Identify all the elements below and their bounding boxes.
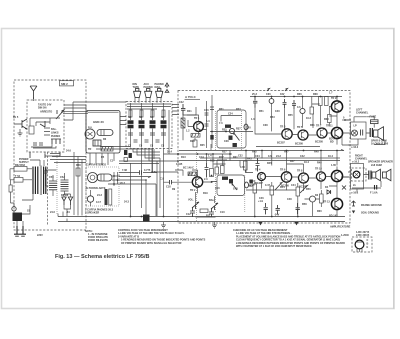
svg-text:R23: R23: [190, 140, 195, 143]
wire TR2: [164, 170, 213, 193]
svg-text:0.65: 0.65: [240, 166, 245, 169]
signal ground legend symbol: [352, 211, 355, 214]
svg-text:BC208: BC208: [315, 141, 323, 144]
svg-text:TR: TR: [88, 148, 92, 151]
tuner/power-supply module dashed enclosure SM2: [14, 80, 86, 230]
TO92 package: [355, 240, 364, 252]
tone feedback loop right channel: [217, 175, 245, 196]
svg-text:0.17: 0.17: [96, 201, 101, 204]
electrolytic capacitor C1: [97, 130, 113, 136]
svg-text:C.8: C.8: [160, 178, 165, 181]
svg-text:C32: C32: [238, 155, 243, 158]
tone feedback loop: [217, 110, 246, 148]
chassis ground mark: [165, 83, 169, 88]
label TASTO 24V: [38, 104, 52, 114]
ground under FE5: [18, 129, 23, 136]
switch key 2: [139, 103, 145, 148]
wire resistors to transformer: [10, 169, 32, 180]
level potentiometer: [56, 110, 64, 119]
resistor R43: [210, 169, 214, 177]
transformer T1 secondary: [44, 167, 46, 195]
supply rail labels: [66, 150, 81, 168]
wire antenna drop: [33, 97, 35, 101]
connector labels BAL LINKS PHONO: [51, 128, 60, 138]
capacitor C20: [253, 97, 257, 108]
balance potentiometer: [209, 199, 218, 210]
svg-text:24.6: 24.6: [50, 211, 55, 214]
wire transformer taps: [22, 160, 56, 200]
note column it: [85, 230, 108, 242]
switch key 4: [161, 103, 167, 148]
label headphone unit: [86, 164, 106, 167]
svg-text:o 16.2: o 16.2: [352, 161, 360, 164]
capacitor C51: [276, 205, 280, 214]
ground sym bus1: [161, 222, 166, 228]
value labels left supply: [49, 176, 70, 214]
antenna: [30, 86, 37, 99]
svg-text:R19: R19: [203, 192, 208, 195]
caps right of TR2: [205, 163, 209, 178]
transformer T1 primary: [33, 167, 38, 195]
svg-text:+1.9: +1.9: [258, 200, 264, 203]
resistor R50a: [244, 161, 248, 170]
transistor TR5: [298, 130, 308, 140]
amplifier board dashed enclosure A750-C: [178, 91, 350, 224]
wire tone mid rail: [210, 131, 253, 150]
label PHONO MAG: [155, 83, 164, 89]
phone jack: [88, 173, 113, 183]
svg-text:TR 11: TR 11: [326, 125, 333, 128]
svg-text:GMC 20: GMC 20: [93, 120, 104, 124]
svg-text:R61: R61: [310, 124, 315, 127]
value labels TR2 area: [167, 151, 224, 196]
transistor TR2: [190, 177, 203, 192]
dotted screen lines tone: [216, 111, 242, 150]
svg-text:R31: R31: [219, 108, 224, 111]
svg-text:WITH VOLTMETER AT 1 KHZ OF 200: WITH VOLTMETER AT 1 KHZ OF 2000 OHM INPU…: [236, 245, 312, 248]
svg-text:26.3: 26.3: [120, 182, 125, 185]
svg-text:R17: R17: [219, 156, 224, 159]
cartridge input circle: [85, 129, 95, 139]
elco C21: [269, 97, 274, 108]
svg-text:0.775: 0.775: [144, 169, 151, 172]
label socket R: [353, 184, 356, 187]
key contacts inner: [33, 143, 43, 145]
fuse on bus: [143, 215, 150, 222]
svg-text:7.3: 7.3: [219, 122, 223, 125]
connector pins: [51, 139, 61, 144]
svg-text:TR 5: TR 5: [297, 126, 303, 129]
value labels gmc: [88, 127, 114, 163]
ground triangle bus3: [259, 222, 263, 225]
wire inner box drops: [30, 152, 60, 158]
svg-text:T 52: T 52: [15, 175, 21, 178]
trimmer arrow R1: [275, 183, 282, 191]
left speaker bottom wire: [348, 144, 350, 146]
DIN socket J2: [145, 89, 152, 98]
phones box R: [351, 164, 364, 190]
wire amp exit left channel: [342, 117, 351, 121]
more value labels sparse: [208, 151, 333, 159]
svg-text:2 SPEAKER: 2 SPEAKER: [85, 212, 99, 215]
wire main bottom bus: [58, 217, 345, 222]
capacitor on arrow wire: [140, 170, 142, 174]
coupling rail vertical B: [210, 95, 214, 148]
svg-text:0.6: 0.6: [268, 155, 272, 158]
output transistor TR13: [323, 198, 343, 209]
svg-text:R25: R25: [200, 144, 205, 147]
TO92 inset left label: [341, 234, 349, 237]
transistor TR1: [194, 117, 204, 131]
capacitor C41: [209, 208, 214, 217]
label A 750-C: [185, 95, 201, 99]
svg-text:C38: C38: [263, 124, 268, 127]
svg-text:0.47: 0.47: [265, 184, 270, 187]
small transistor TR14: [310, 196, 316, 202]
label FUSE L: [370, 116, 377, 119]
svg-text:24.4: 24.4: [167, 151, 172, 154]
resistor T52: [14, 175, 23, 182]
svg-text:LP: LP: [354, 125, 358, 128]
output transistor TR9: [331, 101, 342, 112]
signal ground mark: [165, 90, 169, 93]
capacitor mark: [43, 168, 48, 186]
wire sockets to switch unit: [135, 98, 161, 103]
value labels right stage: [233, 155, 336, 169]
label tr2 values: [160, 163, 183, 191]
wire corner bends: [133, 148, 160, 161]
selector switch dashed enclosure: [126, 102, 172, 149]
wire supply risers: [50, 152, 86, 216]
wire sm2 bottom links: [30, 102, 126, 158]
svg-text:16.4: 16.4: [328, 155, 333, 158]
resistor R24: [319, 97, 329, 106]
svg-text:TR 8: TR 8: [297, 170, 303, 173]
svg-text:BC208: BC208: [281, 185, 289, 188]
coupling rail vertical A: [205, 101, 209, 148]
TO92 inset dashed box: [352, 237, 372, 252]
svg-text:1.4: 1.4: [208, 155, 212, 158]
svg-text:R63: R63: [324, 118, 329, 121]
svg-text:C52: C52: [60, 176, 65, 179]
resistor R50: [253, 180, 257, 197]
DIN speaker socket dashed box R: [352, 168, 367, 181]
resistor R30: [328, 115, 332, 123]
switch key 3: [150, 103, 156, 148]
svg-text:1.65: 1.65: [331, 164, 336, 167]
trimmer parts R: [222, 177, 238, 191]
TO92 inset label: [356, 231, 369, 237]
speaker L: [374, 127, 384, 141]
svg-text:R49: R49: [314, 151, 319, 154]
svg-text:CUFFIA STEREO: CUFFIA STEREO: [86, 164, 106, 167]
transistor TR3: [282, 129, 292, 139]
svg-text:0.045: 0.045: [176, 163, 183, 166]
junction dots rails: [163, 96, 338, 218]
mains switch: [13, 205, 31, 226]
label DIN TAPE: [133, 83, 140, 89]
svg-text:C30: C30: [246, 127, 251, 130]
svg-text:5.4: 5.4: [206, 120, 210, 123]
svg-text:R66: R66: [297, 93, 302, 96]
capacitor C50: [264, 203, 268, 214]
transformer T1 core: [40, 166, 41, 196]
label SGN GROUND: [361, 212, 379, 215]
speaker R2: [383, 169, 391, 181]
svg-text:R37: R37: [236, 128, 241, 131]
capacitor C42: [166, 180, 172, 189]
tap plate stack A: [49, 175, 57, 196]
svg-text:7.08: 7.08: [122, 169, 127, 172]
wire rc top stubs: [255, 151, 337, 166]
svg-text:TR 1: TR 1: [194, 117, 200, 120]
dotted screen mid: [196, 150, 198, 222]
transistor TR7: [317, 128, 327, 138]
svg-text:C24: C24: [228, 113, 233, 116]
svg-text:BD: BD: [330, 141, 334, 144]
capacitor C22: [283, 99, 287, 108]
corridor junctions: [130, 171, 153, 217]
wire speaker L hookup: [350, 117, 385, 145]
diode D1: [62, 197, 66, 205]
svg-text:C50: C50: [49, 176, 54, 179]
label amp bottom: [330, 226, 351, 229]
svg-text:R47: R47: [284, 151, 289, 154]
svg-text:FE 5: FE 5: [13, 116, 19, 119]
transistor FE5: [13, 116, 27, 129]
svg-text:SM 2: SM 2: [61, 82, 68, 86]
wire lower mid right: [246, 173, 313, 217]
inner dashed box tape-key unit: [27, 100, 64, 152]
svg-text:CHANNEL: CHANNEL: [356, 112, 369, 115]
wire mid rail: [164, 153, 233, 155]
svg-text:R49: R49: [317, 162, 322, 165]
svg-text:2x8 OHM: 2x8 OHM: [371, 164, 382, 167]
label GMC 20: [93, 120, 104, 124]
wire left channel out join: [342, 120, 351, 145]
wire gmc drops: [90, 153, 114, 165]
switch key 1: [128, 103, 134, 148]
resistor hatched: [101, 147, 113, 152]
svg-text:C34: C34: [255, 155, 260, 158]
svg-text:C18: C18: [166, 186, 171, 189]
svg-text:PHONO: PHONO: [51, 135, 60, 138]
more type labels: [255, 182, 307, 189]
extra braid wires: [96, 147, 154, 160]
wire headphone rail to amp: [119, 161, 178, 164]
svg-text:ALTOPARLANTE: ALTOPARLANTE: [86, 187, 106, 190]
value labels mid row: [251, 116, 329, 127]
svg-text:TR 9: TR 9: [331, 97, 337, 100]
label TR7: [316, 125, 322, 128]
svg-text:P.U.: P.U.: [88, 127, 93, 130]
resistor R11 hatched: [191, 134, 200, 138]
svg-text:-34V: -34V: [274, 214, 280, 217]
rail mid4: [256, 146, 320, 148]
resistor R12: [193, 140, 197, 147]
svg-text:R35: R35: [222, 129, 227, 132]
svg-text:-34: -34: [66, 211, 70, 214]
svg-text:C14: C14: [199, 156, 204, 159]
svg-text:R15: R15: [210, 160, 215, 163]
tap plate stack B: [61, 173, 69, 195]
wire tone R out: [211, 175, 255, 185]
parts cluster right: [214, 160, 228, 174]
svg-text:TR 6: TR 6: [280, 169, 286, 172]
svg-text:R53: R53: [270, 116, 275, 119]
dotted screen line: [56, 155, 58, 215]
svg-text:25.3: 25.3: [252, 93, 257, 96]
wire switch outputs down: [131, 110, 170, 216]
ground sym bus2: [212, 222, 217, 228]
capacitor C23: [292, 100, 296, 109]
svg-text:1-2040: 1-2040: [341, 234, 349, 237]
svg-text:o 16.2: o 16.2: [351, 146, 359, 149]
label BC above TR2: [183, 167, 194, 170]
label TR3: [280, 126, 286, 129]
junction dots top: [271, 96, 304, 98]
label FRAME GROUND: [361, 204, 382, 207]
wire TR1 surround: [183, 115, 207, 140]
value labels switch area: [128, 116, 165, 148]
connector bars R: [370, 185, 378, 195]
dark cap on rail: [210, 135, 213, 140]
svg-text:R51: R51: [259, 110, 264, 113]
junction X: [342, 186, 346, 190]
capacitor in phones box: [361, 130, 363, 136]
wire TR2 collector up: [192, 154, 222, 177]
trimmer arrow R2: [300, 186, 308, 194]
value labels tr1 area: [179, 101, 210, 147]
wire connector to left: [31, 128, 56, 148]
label POWER SUPPLY: [19, 158, 29, 164]
speaker R terminals: [369, 171, 371, 180]
headphone jack dotted box: [86, 167, 119, 206]
capacitor C10: [181, 104, 185, 115]
phones box L: [351, 122, 367, 139]
note column right: [233, 229, 345, 248]
svg-text:0.65: 0.65: [233, 188, 238, 191]
svg-text:FRAME GROUND: FRAME GROUND: [361, 204, 382, 207]
svg-text:C22: C22: [179, 101, 184, 104]
capacitor pairs row2: [134, 140, 160, 142]
speaker terminals L: [370, 128, 372, 137]
svg-text:BC 149 C: BC 149 C: [183, 167, 194, 170]
resistor R10: [181, 118, 185, 128]
elco cap: [244, 124, 248, 130]
more corridor wires: [120, 148, 178, 216]
wire bus left risers: [58, 212, 67, 222]
wire driver stage: [183, 97, 331, 141]
label BD under TR13: [329, 138, 338, 218]
svg-text:0.6: 0.6: [297, 106, 301, 109]
caption: [55, 254, 149, 260]
svg-text:VOL.: VOL.: [188, 199, 194, 202]
label TR11: [326, 125, 333, 128]
label -34V: [258, 200, 280, 217]
resistor R25: [310, 107, 314, 114]
svg-text:34V: 34V: [280, 93, 285, 96]
mains plug: [14, 226, 26, 236]
svg-text:ARRESTO: ARRESTO: [40, 111, 52, 114]
svg-text:TR 13: TR 13: [323, 201, 330, 204]
svg-text:R58: R58: [302, 203, 307, 206]
svg-text:SGN. GROUND: SGN. GROUND: [361, 212, 379, 215]
value labels tone: [219, 108, 251, 143]
svg-text:TR 7: TR 7: [316, 125, 322, 128]
svg-text:R21: R21: [187, 110, 192, 113]
label speaker row: [352, 161, 393, 168]
value labels tr bases: [277, 141, 334, 146]
wire pot to phono box: [63, 111, 88, 113]
svg-text:OF PRINTED BOARD WITH SIGN: OF PRINTED BOARD WITH SIGNAL/LE SELECTOR: [121, 242, 182, 245]
svg-text:C44: C44: [291, 184, 296, 187]
wire switch top bus: [127, 104, 171, 109]
label AUX PHONO: [144, 83, 153, 89]
transistor block: [93, 140, 101, 146]
svg-text:R60: R60: [317, 210, 322, 213]
output transistor TR12: [331, 170, 342, 181]
test label 16.2: [351, 146, 359, 149]
value labels driver row: [259, 106, 311, 120]
svg-text:AMPLIFICATORE: AMPLIFICATORE: [330, 226, 351, 229]
fuse F1: [371, 120, 379, 124]
svg-text:R58: R58: [76, 164, 81, 167]
capacitor C52: [296, 203, 300, 214]
value labels right lower: [248, 184, 329, 213]
arrow test points top: [267, 89, 288, 92]
capacitor C2: [87, 172, 120, 206]
svg-text:16 OHM IF 800: 16 OHM IF 800: [371, 143, 389, 146]
svg-text:R68: R68: [313, 93, 318, 96]
svg-text:1.7: 1.7: [329, 92, 333, 95]
svg-text:o 16.1: o 16.1: [351, 192, 359, 195]
resistor R42 hatched: [188, 172, 197, 176]
svg-text:C48: C48: [287, 198, 292, 201]
diode D11: [327, 190, 331, 194]
svg-text:TR 3: TR 3: [280, 126, 286, 129]
resistor R51: [270, 182, 274, 199]
svg-text:1.2: 1.2: [186, 130, 190, 133]
wire rectifier loop: [64, 194, 71, 216]
TO92 pin labels: [367, 239, 369, 249]
svg-text:R27: R27: [222, 151, 227, 154]
svg-text:TR 2: TR 2: [190, 189, 196, 192]
elco tone R: [245, 182, 249, 188]
svg-text:C46: C46: [259, 197, 264, 200]
transistor TR10: [315, 168, 326, 182]
wire sm2 to switch: [64, 105, 86, 112]
transistor TR6: [280, 169, 292, 183]
svg-text:F 1.6A: F 1.6A: [370, 192, 378, 195]
label LEFT CHANNEL: [356, 109, 369, 115]
wire gmc to switch links: [120, 117, 126, 125]
svg-text:R45: R45: [252, 151, 257, 154]
svg-text:C28: C28: [224, 140, 229, 143]
svg-text:D6 D8: D6 D8: [61, 194, 69, 197]
svg-text:R47: R47: [290, 160, 295, 163]
value labels amp top: [252, 92, 333, 97]
resistor R52: [296, 183, 300, 200]
svg-text:BC208: BC208: [295, 143, 303, 146]
svg-text:Fig. 13 — Schema elettrico LF: Fig. 13 — Schema elettrico LF 795/B: [55, 254, 149, 260]
diode D2: [68, 197, 72, 205]
label speaker L: [371, 140, 389, 146]
svg-text:2.3: 2.3: [204, 178, 208, 181]
test label 16.1: [351, 192, 359, 195]
capacitor pairs under keys: [128, 133, 166, 135]
DIN socket J3: [156, 89, 163, 98]
